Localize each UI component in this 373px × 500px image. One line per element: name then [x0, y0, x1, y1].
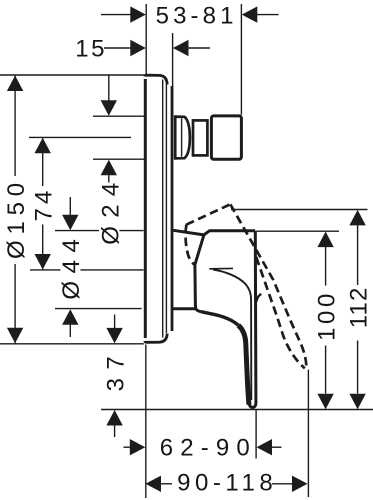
extension line: hub axis (74 bottom): [30, 269, 61, 271]
arrow Ø24 bottom (up): [101, 160, 117, 176]
dimension Ø44 stems: [69, 197, 71, 216]
arrow 15 right: [173, 40, 189, 56]
knob bell inner line: [181, 118, 183, 156]
arrow Ø150 top: [7, 76, 23, 92]
svg-text:Ø44: Ø44: [58, 232, 85, 300]
svg-text:90-118: 90-118: [177, 470, 277, 497]
knob bell: [175, 117, 190, 159]
dashed lever lower-left edge with curved tip: [256, 257, 305, 368]
svg-text:74: 74: [31, 187, 58, 222]
hub bottom edge: [172, 309, 201, 312]
extension line: hub top (Ø44): [55, 230, 99, 232]
lever left edge thick band: [238, 325, 249, 405]
dimension 37 stems: [114, 315, 116, 330]
arrow 37 top (down): [106, 328, 122, 344]
extension line: lever top (100): [257, 230, 340, 232]
dimension 112 line: [357, 225, 359, 286]
extension line: knob face (53-81): [240, 4, 242, 115]
plate bottom edge: [145, 334, 167, 343]
knob stem cylinder: [193, 120, 207, 155]
hub top edge: [173, 230, 255, 235]
escutcheon plate: [145, 75, 172, 342]
dimension Ø150 line: [14, 76, 16, 176]
plate rim line 2: [165, 84, 167, 333]
svg-text:62-90: 62-90: [160, 435, 257, 462]
handle hub and lever (solid): [172, 230, 261, 407]
extension line: plate top: [0, 74, 146, 76]
arrow Ø44 top (down): [62, 215, 78, 231]
svg-text:100: 100: [314, 290, 341, 341]
plate front edge: [144, 79, 147, 338]
lever right-edge curl detail: [256, 294, 261, 302]
arrow Ø24 top (down): [101, 100, 117, 116]
extension line: plate bottom: [0, 343, 144, 345]
dimension 62-90 tails: [124, 446, 131, 448]
arrow 74 top: [35, 138, 51, 154]
lever right edge with tip: [249, 231, 256, 408]
svg-text:112: 112: [346, 287, 373, 329]
svg-text:Ø150: Ø150: [3, 177, 30, 259]
arrow Ø44 bottom (up): [62, 309, 78, 325]
arrow 112 top: [349, 210, 365, 226]
extension line: dashed lever top (112): [231, 209, 368, 211]
arrow 62-90 left: [130, 439, 146, 455]
svg-text:53-81: 53-81: [156, 3, 238, 30]
arrow 62-90 right: [257, 439, 273, 455]
svg-text:15: 15: [75, 36, 107, 63]
arrow Ø150 bottom: [7, 328, 23, 344]
extension line: hub bottom (Ø44): [55, 308, 142, 310]
dimension 74 line: [42, 138, 44, 186]
dashed lever long right edge: [230, 204, 306, 367]
dashed hub left curve: [186, 225, 195, 265]
dimension Ø24 stems: [108, 75, 110, 101]
arrow 90-118 left: [146, 476, 162, 492]
extension line: knob top: [93, 115, 145, 117]
arrow 37 bottom (up): [106, 410, 122, 426]
arrow 15 left: [130, 40, 146, 56]
lever inner line sweeping branch: [213, 270, 251, 400]
plate rim line 1: [162, 80, 164, 338]
extension line: lever tip (62-90): [255, 410, 257, 458]
dimension 53-81 tails: [101, 14, 131, 16]
arrow 74 bottom: [35, 254, 51, 270]
extension line: plate front (top dims): [145, 4, 147, 75]
lever inner line horizontal branch: [209, 267, 233, 269]
arrow 90-118 right: [292, 476, 308, 492]
dashed lever upper-left edge: [186, 204, 230, 224]
hub slant edge: [195, 235, 204, 309]
extension line: lever tip level (bottom long): [101, 409, 373, 411]
arrow 53-81 right: [242, 6, 257, 22]
dimension 90-118 tails: [160, 483, 172, 485]
svg-text:37: 37: [103, 348, 130, 392]
extension line: knob bottom: [93, 158, 145, 160]
arrow 100 top: [317, 232, 333, 248]
extension line: plate front vertical (bottom dims): [145, 345, 147, 499]
plate back edge: [171, 86, 174, 331]
cartridge knob: [175, 116, 241, 159]
dimension 15 tails: [104, 47, 131, 49]
extension line: knob axis (74 top): [29, 136, 131, 138]
dashed lever (raised position): [186, 204, 307, 368]
lever left edge swoop: [201, 312, 238, 326]
extension line: wall plane (15): [172, 33, 174, 121]
knob end cap: [211, 116, 241, 159]
dimension 100 line: [325, 247, 327, 286]
extension line: dashed tip (90-118): [307, 370, 309, 497]
svg-text:Ø24: Ø24: [97, 174, 124, 244]
arrow 100 bottom: [317, 394, 333, 410]
arrow 53-81 left: [130, 6, 146, 22]
plate top edge: [145, 75, 167, 84]
arrow 112 bottom: [349, 394, 365, 410]
